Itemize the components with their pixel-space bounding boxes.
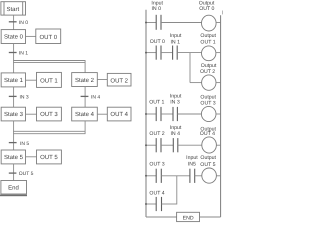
branch wire to coil OUT 2 bbox=[190, 82, 202, 84]
divergence double line bbox=[13, 61, 85, 63]
contact IN 1 bbox=[173, 46, 178, 60]
rung 3 wire bbox=[146, 113, 156, 115]
label Input IN 4 bbox=[170, 125, 182, 137]
contact OUT 1 bbox=[156, 107, 161, 121]
action box OUT 1 bbox=[37, 72, 62, 87]
svg-text:State 2: State 2 bbox=[75, 77, 95, 84]
rung 1 wire to coil bbox=[161, 22, 202, 24]
rung 2 wire to coil bbox=[177, 52, 201, 54]
svg-text:END: END bbox=[183, 215, 194, 221]
wire Start to State 0 bbox=[13, 15, 15, 30]
rung 2 wire bbox=[146, 52, 156, 54]
wire branch left bbox=[13, 63, 15, 73]
svg-text:OUT 2: OUT 2 bbox=[200, 69, 215, 75]
rung 4 wire bbox=[146, 144, 156, 146]
rung 3 wire to rail bbox=[216, 113, 221, 115]
contact IN5 bbox=[190, 169, 195, 183]
branch wire down to OUT 2 bbox=[189, 53, 191, 83]
svg-text:OUT 4: OUT 4 bbox=[149, 190, 164, 196]
rung 4 wire to coil bbox=[178, 144, 202, 146]
svg-text:Output: Output bbox=[200, 33, 216, 39]
svg-text:OUT 4: OUT 4 bbox=[200, 131, 215, 137]
coil OUT 2 bbox=[202, 75, 216, 90]
rung 3 wire to coil bbox=[177, 113, 201, 115]
svg-text:End: End bbox=[8, 184, 19, 191]
svg-text:OUT 1: OUT 1 bbox=[40, 77, 58, 84]
label Output OUT 0 bbox=[199, 1, 215, 13]
junction rung 2 bbox=[145, 52, 147, 54]
svg-text:OUT 3: OUT 3 bbox=[200, 101, 215, 107]
convergence double line bbox=[13, 131, 85, 133]
wire State 0 to OUT 0 bbox=[26, 35, 36, 37]
svg-text:IN 0: IN 0 bbox=[19, 20, 28, 26]
state box State 2 bbox=[72, 73, 98, 87]
svg-text:IN5: IN5 bbox=[188, 162, 196, 168]
wire State 3 to OUT 3 bbox=[26, 113, 37, 115]
svg-text:IN 3: IN 3 bbox=[20, 95, 29, 101]
transition IN 5 bbox=[9, 141, 30, 147]
wire State 5 to OUT 5 bbox=[26, 156, 37, 158]
contact OUT 4 bbox=[156, 197, 161, 211]
branch wire OUT 4 from rail bbox=[146, 203, 156, 205]
label Output OUT 4 bbox=[200, 126, 217, 137]
rung 5 wire bbox=[146, 175, 156, 177]
svg-text:OUT 1: OUT 1 bbox=[149, 99, 164, 105]
svg-text:IN 4: IN 4 bbox=[91, 95, 100, 101]
rung 1 wire bbox=[146, 22, 156, 24]
transition IN 4 bbox=[81, 95, 101, 101]
junction rung 4 bbox=[145, 144, 147, 146]
svg-text:OUT 3: OUT 3 bbox=[40, 111, 58, 118]
wire State 0 down bbox=[13, 44, 15, 63]
svg-text:OUT 0: OUT 0 bbox=[40, 34, 58, 41]
label Output OUT 5 bbox=[200, 155, 216, 168]
action box OUT 3 bbox=[37, 107, 62, 121]
coil OUT 4 bbox=[202, 137, 217, 153]
label Output OUT 3 bbox=[200, 95, 216, 107]
svg-text:Start: Start bbox=[6, 6, 19, 13]
state box State 3 bbox=[1, 107, 25, 121]
coil OUT 1 bbox=[202, 46, 216, 61]
action box OUT 2 bbox=[107, 73, 131, 86]
svg-text:OUT 5: OUT 5 bbox=[40, 154, 58, 161]
svg-text:OUT 1: OUT 1 bbox=[200, 39, 215, 45]
transition OUT 5 bbox=[9, 171, 34, 177]
svg-text:IN 3: IN 3 bbox=[170, 99, 180, 105]
contact OUT 2 bbox=[156, 138, 161, 152]
label Input IN 1 bbox=[170, 33, 182, 45]
action box OUT 4 bbox=[107, 107, 131, 121]
transition IN 1 bbox=[9, 51, 28, 57]
rung 3 wire mid bbox=[161, 113, 173, 115]
rung 1 wire to rail bbox=[216, 22, 221, 24]
svg-text:OUT 5: OUT 5 bbox=[200, 162, 215, 168]
branch wire OUT 4 to corner bbox=[162, 203, 177, 205]
coil OUT 0 bbox=[202, 15, 217, 31]
junction rung 1 bbox=[145, 22, 147, 24]
action box OUT 5 bbox=[37, 150, 62, 164]
svg-text:IN 1: IN 1 bbox=[19, 51, 28, 57]
label Output OUT 1 bbox=[200, 33, 216, 45]
rung 4 wire mid bbox=[161, 144, 173, 146]
svg-text:Output: Output bbox=[200, 155, 216, 161]
svg-text:OUT 2: OUT 2 bbox=[149, 131, 164, 137]
end box shadow bbox=[0, 195, 27, 197]
state box State 0 bbox=[1, 30, 25, 44]
label Input IN 0 bbox=[151, 0, 163, 11]
wire State 1 to OUT 1 bbox=[26, 79, 37, 81]
rung 5 wire to coil bbox=[195, 175, 202, 177]
branch wire OUT 4 up bbox=[176, 176, 178, 205]
action box OUT 0 bbox=[36, 29, 61, 44]
svg-text:OUT 0: OUT 0 bbox=[199, 6, 214, 12]
svg-text:OUT 2: OUT 2 bbox=[110, 78, 128, 85]
rung 4 wire to rail bbox=[216, 144, 220, 146]
svg-text:State 4: State 4 bbox=[75, 111, 95, 118]
coil OUT 3 bbox=[201, 106, 216, 121]
end terminal box End bbox=[1, 181, 27, 195]
svg-text:State 3: State 3 bbox=[4, 111, 24, 118]
start terminal box Start bbox=[1, 2, 26, 15]
svg-text:IN 5: IN 5 bbox=[20, 141, 29, 147]
wire State 4 down bbox=[84, 121, 86, 134]
contact IN 3 bbox=[173, 107, 177, 121]
svg-text:Input: Input bbox=[170, 33, 182, 39]
label Output OUT 2 coil bbox=[200, 63, 217, 75]
junction branch bbox=[145, 203, 147, 205]
wire State 2 to OUT 2 bbox=[97, 79, 107, 81]
junction rung 5 bbox=[145, 175, 147, 177]
wire State 4 to OUT 4 bbox=[97, 113, 107, 115]
transition IN 0 bbox=[9, 20, 28, 26]
rung 5 wire to rail bbox=[216, 175, 220, 177]
svg-text:OUT 3: OUT 3 bbox=[149, 162, 164, 168]
coil OUT 5 bbox=[202, 168, 217, 183]
label Input IN 3 bbox=[170, 93, 182, 105]
rung 5 wire mid bbox=[161, 175, 190, 177]
rung END wire to rail bbox=[200, 216, 221, 218]
rung 2 wire to rail bbox=[216, 52, 221, 54]
wire branch right bbox=[84, 61, 86, 73]
wire coil OUT 2 to rail bbox=[216, 82, 221, 84]
state box State 1 bbox=[1, 73, 25, 87]
svg-text:IN 1: IN 1 bbox=[170, 39, 180, 45]
contact IN 4 bbox=[173, 138, 178, 152]
edge artifact mark top right bbox=[221, 11, 224, 15]
ladder left power rail bbox=[145, 10, 147, 217]
label Input IN5 bbox=[186, 155, 198, 167]
contact OUT 0 bbox=[156, 46, 161, 60]
svg-text:State 5: State 5 bbox=[4, 154, 24, 161]
contact IN 0 bbox=[156, 15, 161, 30]
transition IN 3 bbox=[9, 95, 29, 101]
rung END wire bbox=[146, 216, 177, 218]
wire State 1 down bbox=[13, 87, 15, 107]
junction rung 3 bbox=[145, 113, 147, 115]
contact OUT 3 bbox=[156, 169, 161, 183]
svg-text:State 1: State 1 bbox=[4, 77, 24, 84]
END box bbox=[177, 212, 200, 221]
rung 2 wire mid bbox=[161, 52, 173, 54]
state box State 5 bbox=[1, 150, 25, 164]
svg-text:IN 0: IN 0 bbox=[151, 6, 161, 12]
ladder right power rail bbox=[220, 15, 222, 217]
state box State 4 bbox=[72, 107, 98, 121]
wire convergence down bbox=[13, 134, 15, 150]
svg-text:IN 4: IN 4 bbox=[170, 131, 180, 137]
svg-text:OUT 4: OUT 4 bbox=[110, 111, 128, 118]
wire State 3 down bbox=[13, 121, 15, 134]
svg-text:Input: Input bbox=[186, 155, 198, 161]
wire State 5 down bbox=[13, 164, 15, 181]
svg-text:State 0: State 0 bbox=[4, 34, 24, 41]
svg-text:OUT 0: OUT 0 bbox=[150, 39, 165, 45]
svg-text:OUT 5: OUT 5 bbox=[19, 171, 34, 177]
wire State 2 down bbox=[84, 87, 86, 108]
